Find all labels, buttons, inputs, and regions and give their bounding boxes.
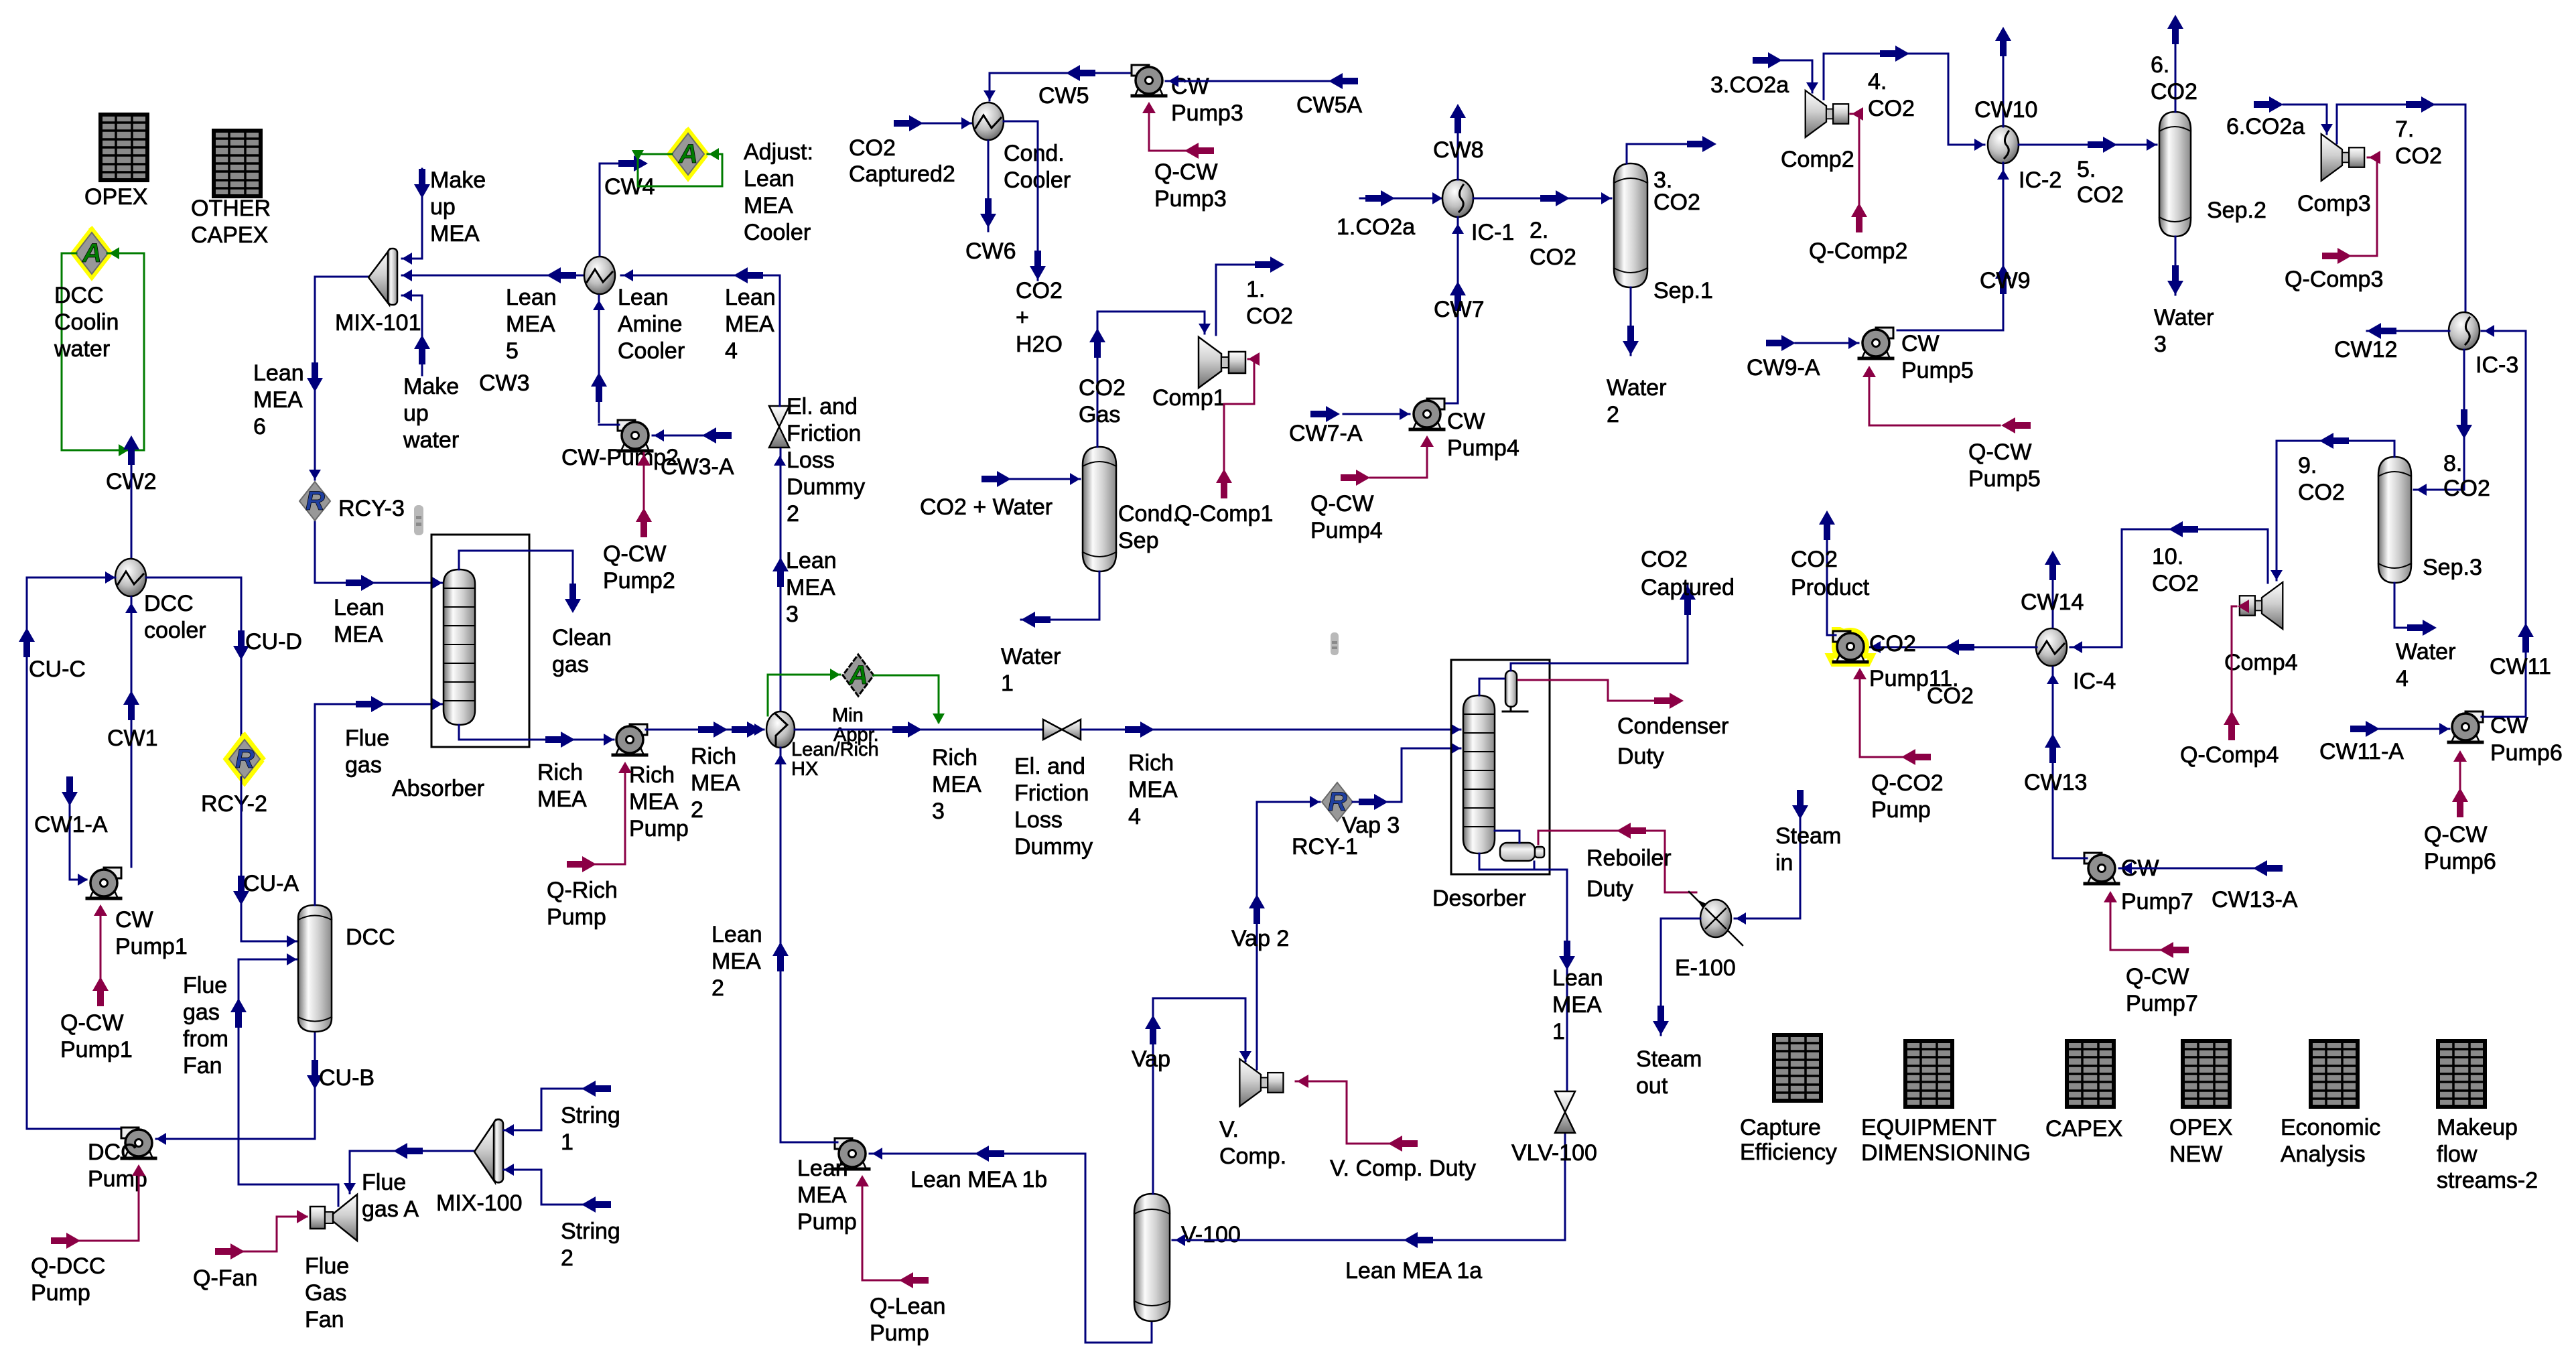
svg-text:DCC: DCC bbox=[144, 591, 194, 616]
svg-text:Rich: Rich bbox=[932, 745, 977, 770]
wire CU-B DCC to DCC Pump bbox=[156, 1032, 315, 1139]
scrollbar artifact 1 bbox=[414, 505, 423, 535]
pump Lean MEA Pump bbox=[781, 1138, 869, 1235]
svg-text:Pump7: Pump7 bbox=[2126, 991, 2198, 1016]
svg-text:CO2: CO2 bbox=[2152, 571, 2199, 596]
cooler Lean Amine Cooler bbox=[584, 257, 685, 364]
condenser drum bbox=[1503, 671, 1528, 711]
svg-text:V. Comp. Duty: V. Comp. Duty bbox=[1330, 1156, 1476, 1181]
svg-text:Fan: Fan bbox=[183, 1053, 222, 1079]
wire 10. CO2 Comp4 to IC-4 bbox=[2070, 529, 2268, 647]
wire CW13 pump7 tail bbox=[2053, 858, 2087, 860]
svg-text:Water: Water bbox=[1607, 375, 1666, 401]
svg-text:Adjust:: Adjust: bbox=[744, 139, 813, 165]
energy Q-CO2 Pump bbox=[1860, 673, 1903, 757]
wire 4. CO2 Comp2 to IC-2 bbox=[1824, 54, 1984, 145]
valve El. and Friction Loss Dummy bbox=[1014, 720, 1093, 860]
energy Q-CW Pump4 bbox=[1370, 441, 1427, 478]
stream 7. CO2 label bbox=[2395, 117, 2442, 169]
wire flue gas from fan to DCC bbox=[239, 959, 338, 1206]
stream CO2 + H2O label bbox=[1016, 278, 1063, 357]
svg-text:Pump: Pump bbox=[797, 1209, 857, 1235]
svg-text:Friction: Friction bbox=[787, 421, 861, 446]
recycle RCY-1 bbox=[1292, 782, 1358, 860]
stream Flue gas label bbox=[345, 726, 389, 778]
pump CW Pump3 bbox=[1132, 65, 1243, 126]
svg-text:Pump1: Pump1 bbox=[115, 934, 188, 959]
svg-text:DCC: DCC bbox=[54, 283, 104, 308]
stream 1.CO2a feed bbox=[1360, 198, 1442, 200]
svg-text:Q-CO2: Q-CO2 bbox=[1871, 770, 1944, 796]
cooler DCC cooler bbox=[115, 559, 206, 643]
svg-text:RCY-3: RCY-3 bbox=[338, 496, 405, 521]
svg-text:CO2: CO2 bbox=[2151, 79, 2197, 105]
svg-text:Q-CW: Q-CW bbox=[1154, 159, 1217, 185]
svg-text:CW5A: CW5A bbox=[1296, 92, 1363, 118]
wire Water 2 from Sep.1 bbox=[1630, 287, 1632, 355]
wire 6. CO2 from Sep.2 bbox=[2175, 39, 2177, 112]
svg-text:Pump: Pump bbox=[31, 1280, 90, 1306]
wire Lean MEA 4 into cooler bbox=[621, 275, 780, 277]
svg-text:2.: 2. bbox=[1530, 218, 1548, 243]
svg-text:Gas: Gas bbox=[305, 1280, 346, 1306]
energy Q-Comp1 bbox=[1224, 359, 1254, 492]
svg-text:Q-Rich: Q-Rich bbox=[547, 878, 618, 903]
recycle RCY-2 (selected) bbox=[201, 735, 267, 817]
compressor Comp1 bbox=[1152, 337, 1245, 411]
svg-text:4.: 4. bbox=[1868, 69, 1887, 94]
wire DCC top to absorber flue gas bbox=[315, 704, 442, 905]
stream String 2 bbox=[504, 1170, 595, 1205]
stream CO2 Captured label bbox=[1641, 547, 1735, 600]
svg-text:Pump5: Pump5 bbox=[1901, 358, 1974, 383]
wire lean MEA from RCY-3 to absorber bbox=[315, 521, 442, 583]
spreadsheet OTHER CAPEX bbox=[191, 131, 271, 248]
svg-text:5.: 5. bbox=[2077, 157, 2096, 182]
wire Lean MEA 5 cooler to mixer bbox=[402, 275, 584, 277]
svg-text:CW10: CW10 bbox=[1974, 97, 2037, 123]
stream Steam out bbox=[1661, 918, 1700, 1035]
svg-text:Q-Lean: Q-Lean bbox=[870, 1294, 945, 1319]
reboiler kettle bbox=[1500, 843, 1544, 861]
wire 9. CO2 Sep.3 to Comp4 bbox=[2277, 441, 2394, 580]
wire CW4 cooler to end bbox=[600, 163, 638, 255]
svg-text:MEA: MEA bbox=[797, 1182, 847, 1208]
svg-text:CW1-A: CW1-A bbox=[34, 812, 108, 837]
svg-text:Q-CW: Q-CW bbox=[603, 541, 666, 567]
wire 3. CO2 from Sep.1 bbox=[1627, 144, 1695, 163]
stream CW7-A feed bbox=[1343, 413, 1410, 415]
svg-text:Pump1: Pump1 bbox=[60, 1037, 133, 1063]
svg-text:Comp3: Comp3 bbox=[2297, 191, 2371, 216]
node DCC Coolin water label bbox=[54, 283, 119, 362]
svg-text:Comp.: Comp. bbox=[1219, 1144, 1286, 1169]
svg-text:Sep.2: Sep.2 bbox=[2207, 198, 2266, 223]
vessel Sep.1 bbox=[1614, 163, 1713, 303]
wire CW11 pump6 to IC-3 bbox=[2482, 331, 2526, 717]
stream Flue gas from Fan label bbox=[183, 973, 228, 1079]
svg-text:2: 2 bbox=[1607, 402, 1619, 427]
svg-text:Makeup: Makeup bbox=[2437, 1115, 2518, 1140]
svg-text:gas: gas bbox=[552, 652, 589, 677]
wire CW13 pump7 to IC-4 bbox=[2052, 667, 2054, 858]
svg-text:6.: 6. bbox=[2151, 52, 2169, 78]
spreadsheet CAPEX bbox=[2045, 1041, 2122, 1142]
wire pump6 tail to CW11 bbox=[2482, 716, 2526, 718]
wire CW2 vertical bbox=[131, 462, 133, 559]
stream 6. CO2 label bbox=[2151, 52, 2197, 105]
heater E-100 bbox=[1675, 892, 1743, 981]
svg-text:Pump5: Pump5 bbox=[1968, 466, 2041, 492]
svg-text:Water: Water bbox=[1001, 644, 1061, 669]
energy V. Comp. Duty bbox=[1296, 1081, 1407, 1144]
svg-text:IC-3: IC-3 bbox=[2476, 352, 2518, 378]
svg-text:CO2: CO2 bbox=[1016, 278, 1063, 303]
pump CO2 Pump (selected yellow) bbox=[1829, 630, 1872, 664]
svg-text:Rich: Rich bbox=[629, 762, 675, 788]
svg-text:Steam: Steam bbox=[1636, 1046, 1702, 1072]
svg-text:Comp4: Comp4 bbox=[2224, 650, 2298, 675]
valve El. and Friction Loss Dummy 2 bbox=[769, 394, 865, 527]
svg-text:Pump: Pump bbox=[870, 1320, 929, 1346]
green arrow into A1 bbox=[109, 247, 119, 259]
svg-text:Rich: Rich bbox=[1128, 750, 1174, 776]
wire green adjust A3 right to Rich MEA 3 bbox=[874, 675, 939, 722]
wire CW6 from cooler bbox=[988, 141, 990, 231]
svg-text:Vap: Vap bbox=[1132, 1046, 1170, 1072]
svg-text:Pump: Pump bbox=[629, 816, 689, 841]
spreadsheet Makeup flow streams-2 bbox=[2437, 1041, 2538, 1193]
svg-text:CO2: CO2 bbox=[1530, 245, 1576, 270]
stream 3. CO2 label bbox=[1653, 167, 1700, 215]
wire Vap 3 RCY-1 to desorber bbox=[1353, 748, 1461, 802]
energy Condenser Duty bbox=[1518, 680, 1662, 701]
svg-text:2: 2 bbox=[711, 975, 724, 1001]
svg-text:CW13: CW13 bbox=[2024, 770, 2087, 795]
fan Flue Gas Fan bbox=[305, 1195, 357, 1333]
svg-text:Steam: Steam bbox=[1775, 823, 1841, 849]
svg-text:CO2: CO2 bbox=[2077, 182, 2124, 208]
stream Lean MEA 6 label bbox=[253, 360, 304, 439]
svg-text:Dummy: Dummy bbox=[1014, 834, 1093, 860]
svg-text:Min: Min bbox=[832, 705, 864, 726]
svg-text:Pump6: Pump6 bbox=[2424, 849, 2496, 874]
vessel Sep.2 bbox=[2159, 112, 2266, 236]
svg-text:Vap 3: Vap 3 bbox=[1342, 813, 1400, 838]
svg-text:OPEX: OPEX bbox=[84, 184, 147, 210]
wire Lean MEA 1 desorber to VLV-100 bbox=[1479, 854, 1567, 1092]
svg-text:CO2: CO2 bbox=[1869, 631, 1916, 657]
stream CO2 Captured2 feed bbox=[904, 123, 971, 125]
svg-text:Desorber: Desorber bbox=[1432, 886, 1526, 911]
svg-text:Lean: Lean bbox=[711, 922, 762, 947]
svg-text:Pump3: Pump3 bbox=[1154, 186, 1227, 212]
pump CW Pump7 bbox=[2084, 853, 2193, 914]
wire Water 3 from Sep.2 bbox=[2175, 236, 2177, 295]
compressor Comp2 bbox=[1781, 90, 1854, 172]
mixer MIX-101 bbox=[335, 249, 421, 336]
svg-text:Make: Make bbox=[403, 374, 459, 399]
svg-text:6.CO2a: 6.CO2a bbox=[2226, 114, 2305, 139]
pump CW Pump6 bbox=[2449, 711, 2563, 766]
stream Lean MEA 3 label bbox=[786, 548, 837, 627]
svg-text:Flue: Flue bbox=[183, 973, 227, 998]
vessel Cond.Sep bbox=[1083, 447, 1179, 571]
svg-text:Sep.3: Sep.3 bbox=[2423, 555, 2482, 580]
svg-text:CU-C: CU-C bbox=[29, 657, 86, 682]
wire CU-A from RCY-2 to DCC bbox=[241, 777, 297, 941]
energy Q-Comp4 bbox=[2232, 606, 2236, 737]
wire Rich MEA 4 valve to desorber bbox=[1081, 729, 1461, 731]
column Absorber trays bbox=[392, 569, 484, 801]
cooler Cond. Cooler bbox=[973, 103, 1071, 193]
svg-text:gas: gas bbox=[345, 752, 382, 778]
svg-text:Flue: Flue bbox=[345, 726, 389, 751]
stream Water 1 label bbox=[1001, 644, 1061, 696]
svg-text:water: water bbox=[403, 427, 459, 453]
stream Flue gas A label bbox=[362, 1170, 419, 1222]
svg-text:CW: CW bbox=[1447, 409, 1485, 434]
svg-text:CW12: CW12 bbox=[2334, 337, 2397, 362]
svg-text:DIMENSIONING: DIMENSIONING bbox=[1861, 1140, 2031, 1166]
wire 2. CO2 IC-1 to Sep.1 bbox=[1473, 198, 1611, 200]
wire green adjust A3 left to HX bbox=[768, 675, 840, 715]
svg-text:Lean MEA 1b: Lean MEA 1b bbox=[910, 1167, 1047, 1192]
svg-text:Efficiency: Efficiency bbox=[1740, 1140, 1837, 1165]
green arrow at CW2 junction bbox=[119, 444, 129, 456]
svg-text:Lean: Lean bbox=[253, 360, 304, 386]
energy Q-CW Pump7 bbox=[2110, 895, 2161, 950]
svg-text:Q-Comp2: Q-Comp2 bbox=[1809, 238, 1907, 264]
stream Rich MEA 2 label bbox=[691, 744, 740, 823]
adjust A2 (Lean MEA Cooler) selected bbox=[669, 130, 707, 178]
cooler IC-2 bbox=[1988, 126, 2061, 193]
svg-text:CW5: CW5 bbox=[1038, 83, 1089, 109]
svg-text:Flue: Flue bbox=[305, 1253, 349, 1279]
svg-text:OTHER: OTHER bbox=[191, 196, 271, 221]
wire green adjust loop A2 bbox=[638, 154, 722, 186]
svg-text:Sep: Sep bbox=[1118, 528, 1159, 553]
svg-text:MEA: MEA bbox=[786, 575, 835, 600]
stream 1. CO2 label bbox=[1246, 277, 1293, 329]
wire Vap 2 V.Comp to RCY-1 bbox=[1257, 802, 1320, 1069]
wire Clean gas bbox=[459, 551, 573, 603]
stream CW1-A feed bbox=[70, 804, 86, 880]
svg-text:MIX-100: MIX-100 bbox=[436, 1190, 523, 1216]
svg-text:MEA: MEA bbox=[744, 193, 793, 218]
wire CW1 DCC cooler to CW Pump1 bbox=[131, 597, 133, 867]
stream Make up MEA bbox=[402, 169, 422, 259]
mixer MIX-100 bbox=[436, 1119, 523, 1216]
svg-text:V.: V. bbox=[1219, 1117, 1239, 1142]
spreadsheet OPEX bbox=[84, 115, 147, 210]
stream Lean MEA 5 label bbox=[506, 285, 557, 364]
svg-text:Q-CW: Q-CW bbox=[1968, 439, 2031, 465]
svg-text:Lean MEA 1a: Lean MEA 1a bbox=[1345, 1258, 1482, 1284]
svg-text:EQUIPMENT: EQUIPMENT bbox=[1861, 1115, 1996, 1140]
energy Q-CW Pump3 bbox=[1149, 107, 1199, 151]
stream Make up water bbox=[402, 295, 422, 375]
svg-text:2: 2 bbox=[561, 1245, 573, 1271]
svg-text:CU-D: CU-D bbox=[245, 629, 302, 655]
stream 5. CO2 label bbox=[2077, 157, 2124, 208]
column Desorber trays bbox=[1432, 695, 1526, 911]
svg-text:Captured2: Captured2 bbox=[849, 161, 955, 187]
wire Water 4 from Sep.3 bbox=[2394, 583, 2419, 628]
stream CW9-A feed bbox=[1795, 342, 1858, 344]
wire Lean MEA 1b V-100 to pump bbox=[870, 1153, 1085, 1155]
svg-text:Lean: Lean bbox=[1552, 965, 1603, 991]
svg-text:Amine: Amine bbox=[618, 312, 682, 337]
stream CO2 Gas label bbox=[1079, 375, 1126, 427]
svg-text:Lean: Lean bbox=[744, 166, 795, 192]
svg-text:MEA: MEA bbox=[506, 312, 555, 337]
svg-text:MEA: MEA bbox=[711, 949, 761, 974]
svg-text:Dummy: Dummy bbox=[787, 474, 865, 500]
pump CW Pump4 bbox=[1410, 399, 1519, 461]
svg-text:CW11: CW11 bbox=[2490, 654, 2551, 679]
svg-text:4: 4 bbox=[1128, 804, 1141, 829]
svg-text:Q-Fan: Q-Fan bbox=[193, 1266, 257, 1291]
wire CW10 from IC-2 bbox=[2003, 54, 2005, 127]
svg-text:CW8: CW8 bbox=[1433, 137, 1484, 163]
node Min Appr. label bbox=[832, 705, 879, 746]
svg-text:CO2: CO2 bbox=[1079, 375, 1126, 401]
wire Lean MEA 1a VLV-100 to V-100 bbox=[1172, 1130, 1565, 1240]
stream 10. CO2 label bbox=[2152, 544, 2199, 596]
wire CW12 from IC-3 bbox=[2367, 330, 2449, 332]
svg-text:7.: 7. bbox=[2395, 117, 2414, 142]
stream Lean MEA 4 label bbox=[725, 285, 776, 364]
svg-text:VLV-100: VLV-100 bbox=[1511, 1140, 1597, 1166]
svg-text:CW9: CW9 bbox=[1980, 268, 2031, 293]
pump CW Pump1 bbox=[87, 868, 188, 959]
svg-text:Comp2: Comp2 bbox=[1781, 147, 1854, 172]
energy Q-Comp3 bbox=[2331, 157, 2377, 256]
svg-text:Q-CW: Q-CW bbox=[2424, 822, 2487, 847]
svg-text:CW6: CW6 bbox=[965, 238, 1016, 264]
svg-text:up: up bbox=[430, 194, 456, 220]
svg-text:Q-Comp3: Q-Comp3 bbox=[2285, 267, 2383, 292]
svg-text:flow: flow bbox=[2437, 1142, 2478, 1167]
svg-text:Duty: Duty bbox=[1617, 744, 1664, 769]
svg-text:H2O: H2O bbox=[1016, 332, 1063, 357]
stream Steam in bbox=[1735, 794, 1800, 918]
stream 6.CO2a feed bbox=[2283, 105, 2327, 134]
svg-text:3: 3 bbox=[2154, 332, 2167, 357]
compressor V. Comp. bbox=[1219, 1059, 1286, 1169]
svg-text:RCY-2: RCY-2 bbox=[201, 791, 267, 817]
svg-text:9.: 9. bbox=[2298, 453, 2317, 478]
energy Q-Comp2 bbox=[1850, 114, 1859, 228]
svg-text:1.CO2a: 1.CO2a bbox=[1337, 214, 1415, 240]
wire CW3 pump tail connection bbox=[599, 424, 619, 426]
valve VLV-100 bbox=[1511, 1091, 1597, 1166]
svg-text:Lean: Lean bbox=[618, 285, 669, 310]
svg-text:cooler: cooler bbox=[144, 618, 206, 643]
stream String 1 bbox=[504, 1089, 595, 1130]
svg-text:OPEX: OPEX bbox=[2169, 1115, 2232, 1140]
svg-text:El. and: El. and bbox=[787, 394, 858, 419]
svg-text:Q-CW: Q-CW bbox=[1310, 491, 1373, 517]
svg-text:CW: CW bbox=[115, 907, 153, 933]
svg-text:CO2: CO2 bbox=[1868, 96, 1915, 121]
svg-text:V-100: V-100 bbox=[1181, 1222, 1241, 1247]
svg-text:IC-1: IC-1 bbox=[1471, 220, 1514, 245]
svg-text:CO2: CO2 bbox=[849, 135, 896, 161]
recycle RCY-3 bbox=[299, 482, 405, 521]
wire Lean MEA 4 valve up bbox=[779, 275, 781, 406]
svg-text:MEA: MEA bbox=[1552, 992, 1602, 1018]
svg-text:up: up bbox=[403, 401, 429, 426]
column DCC vessel bbox=[298, 905, 395, 1032]
svg-text:MEA: MEA bbox=[725, 312, 774, 337]
svg-text:El. and: El. and bbox=[1014, 754, 1085, 779]
stream Water 3 label bbox=[2154, 305, 2214, 357]
cooler IC-1 bbox=[1442, 180, 1514, 245]
svg-text:Duty: Duty bbox=[1586, 876, 1633, 902]
svg-text:Q-CW: Q-CW bbox=[60, 1010, 123, 1036]
energy Q-Fan bbox=[228, 1217, 307, 1251]
wire Water 1 from Cond.Sep bbox=[1021, 571, 1099, 620]
cooler IC-3 bbox=[2449, 312, 2518, 378]
stream Rich MEA label bbox=[537, 760, 587, 812]
svg-text:Q-Comp4: Q-Comp4 bbox=[2180, 742, 2279, 768]
svg-text:MEA: MEA bbox=[1128, 777, 1178, 803]
svg-text:Loss: Loss bbox=[787, 448, 835, 473]
scrollbar artifact 2 bbox=[1331, 632, 1339, 655]
svg-text:1: 1 bbox=[561, 1130, 573, 1155]
svg-text:CO2: CO2 bbox=[2395, 143, 2442, 169]
svg-text:CO2: CO2 bbox=[1927, 683, 1974, 709]
svg-text:2: 2 bbox=[787, 501, 799, 527]
wire MIX-101 outlet to RCY-3 bbox=[315, 277, 370, 480]
svg-text:Rich: Rich bbox=[537, 760, 583, 785]
svg-text:Comp1: Comp1 bbox=[1152, 385, 1226, 411]
wire Vap V-100 to V.Comp bbox=[1153, 998, 1245, 1194]
node CO2 Pump11. CO2 labels bbox=[1869, 631, 1974, 709]
wire 5. CO2 IC-2 to Sep.2 bbox=[2019, 144, 2157, 146]
svg-text:MEA: MEA bbox=[537, 787, 587, 812]
svg-text:1.: 1. bbox=[1246, 277, 1265, 302]
svg-text:+: + bbox=[1016, 305, 1029, 330]
wire CW5 pump3 to cooler bbox=[990, 73, 1134, 100]
svg-text:Vap 2: Vap 2 bbox=[1231, 926, 1289, 951]
wire Lean MEA 3 HX to valve bbox=[780, 449, 782, 710]
wire CW14 from IC-4 bbox=[2052, 579, 2054, 627]
stream Rich MEA 3 label bbox=[932, 745, 981, 824]
wire V-100 bottom to Lean MEA 1b bbox=[1085, 1154, 1152, 1343]
svg-text:CAPEX: CAPEX bbox=[2045, 1116, 2122, 1142]
stream CW5A feed bbox=[1166, 80, 1349, 82]
svg-text:MEA: MEA bbox=[253, 387, 303, 413]
spreadsheet Capture Efficiency bbox=[1740, 1035, 1837, 1165]
stream 2. CO2 label bbox=[1530, 218, 1576, 270]
svg-text:Appr.: Appr. bbox=[833, 724, 879, 746]
stream CO2 Product label bbox=[1791, 547, 1870, 600]
svg-text:Sep.1: Sep.1 bbox=[1653, 278, 1713, 303]
svg-text:Cond.: Cond. bbox=[1118, 501, 1179, 527]
wire CO2 Product from pump bbox=[1827, 539, 1836, 635]
svg-text:Analysis: Analysis bbox=[2281, 1142, 2366, 1167]
stream Lean MEA 1 label bbox=[1552, 965, 1603, 1044]
svg-text:Cooler: Cooler bbox=[744, 220, 811, 245]
svg-text:DCC: DCC bbox=[346, 925, 395, 950]
wire 8. CO2 IC-3 to Sep.3 bbox=[2414, 350, 2464, 490]
svg-text:Pump7: Pump7 bbox=[2121, 889, 2193, 914]
stream Water 4 label bbox=[2396, 639, 2455, 691]
stream Lean MEA label bbox=[334, 595, 385, 647]
